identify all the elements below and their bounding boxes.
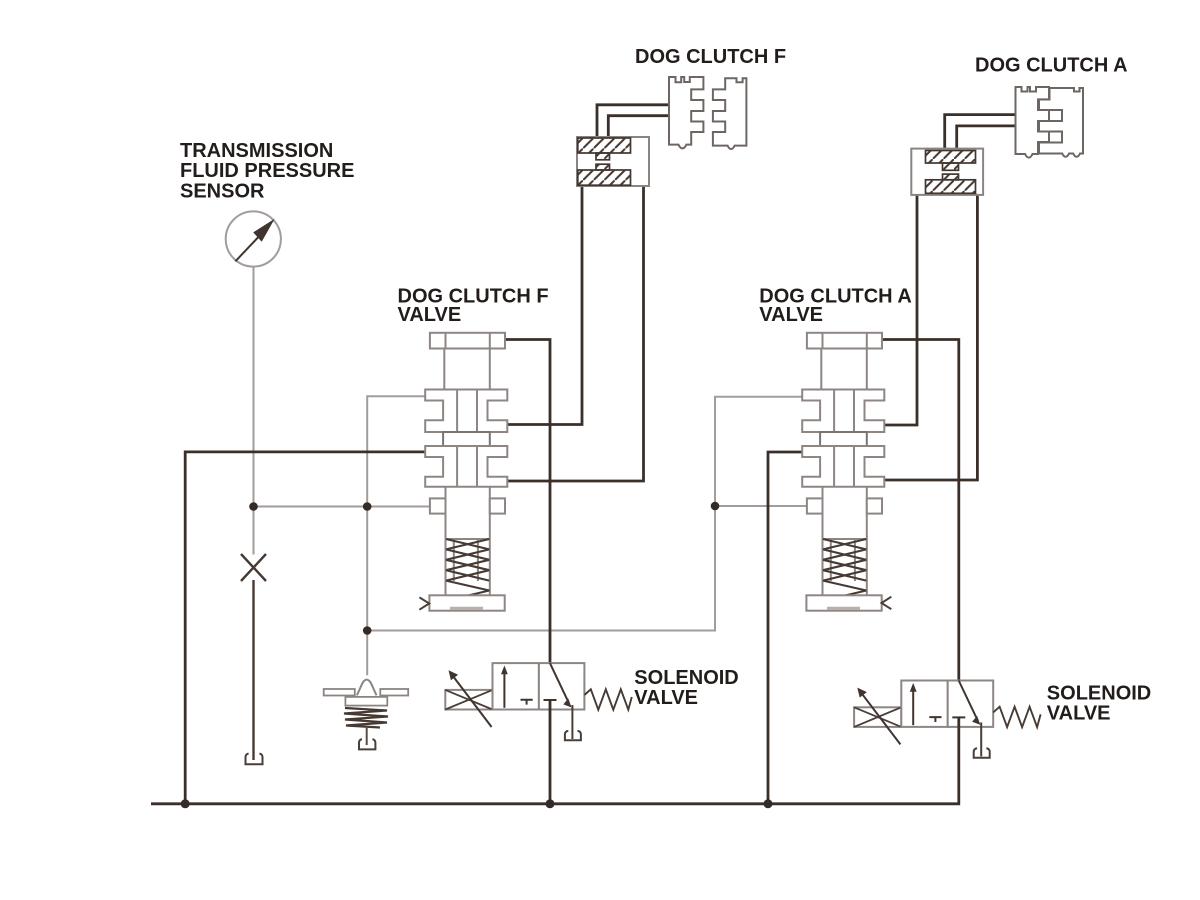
wire: pilot line from DC-F valve spool1 left port down to junction column: [367, 396, 425, 630]
node: junction dot bus left leg: [181, 799, 190, 808]
dog clutch A left half: [1016, 87, 1050, 158]
dog clutch A right half: [1039, 88, 1083, 157]
actuator cylinder F: [577, 137, 649, 186]
svg-text:FLUID PRESSURE: FLUID PRESSURE: [180, 160, 354, 182]
actuator cylinder A: [911, 149, 983, 195]
svg-text:SENSOR: SENSOR: [180, 180, 265, 202]
svg-text:TRANSMISSION: TRANSMISSION: [180, 140, 333, 162]
node: junction dot relief branch: [363, 626, 372, 635]
wire: actuator A rod link upper: [945, 115, 1016, 149]
drain chevron of DC-A valve: [882, 597, 892, 610]
actuator A piston web upper: [943, 163, 959, 170]
node: junction dot DC-A pilot branch: [711, 502, 720, 511]
wire: DC-A valve cap to right solenoid supply: [881, 340, 959, 681]
relief valve body box: [345, 697, 387, 706]
transmission fluid pressure sensor gauge: [226, 211, 281, 266]
valve U1: DOG CLUTCH F VALVE spool assembly: [425, 333, 507, 611]
svg-text:DOG CLUTCH F: DOG CLUTCH F: [635, 46, 786, 68]
actuator A piston web lower: [943, 174, 959, 180]
wire: DC-A valve spool2 right port up to actuator A right: [884, 195, 977, 480]
wire: left solenoid bottom port to bus: [549, 700, 552, 804]
actuator F piston top band: [578, 138, 631, 153]
wire: transmission sensor drop line: [253, 267, 255, 555]
wire: DC-A valve spool2 left port to bus drop: [768, 452, 803, 804]
solenoid valve SV1 (left): [445, 663, 632, 740]
wire: DC-F valve spool2 left port to left drop leg: [185, 452, 425, 804]
check cross X on sensor line: [241, 554, 266, 581]
actuator F piston web upper: [596, 153, 610, 160]
actuator F piston bottom band: [578, 170, 631, 185]
solenoid valve SV2 (right): [854, 681, 1041, 758]
node: junction dot bus right drop: [764, 799, 773, 808]
svg-text:SOLENOID: SOLENOID: [1047, 683, 1151, 705]
wire: sensor branch line to DC-F valve port tab: [254, 506, 430, 508]
wire: actuator A rod link lower: [957, 126, 1016, 149]
wire: bottom supply bus: [151, 716, 959, 804]
wire: DC-F valve spool1 right port up to actuator F left: [507, 186, 582, 425]
node: junction dot bus left solenoid: [546, 799, 555, 808]
dog clutch F right half: [713, 78, 747, 149]
wire: sensor drain line below check cross: [252, 580, 254, 760]
node: junction dot sensor branch: [249, 502, 258, 511]
svg-text:VALVE: VALVE: [759, 304, 823, 326]
relief valve seat bar right: [380, 689, 408, 696]
relief valve drain stem: [366, 728, 368, 745]
drain chevron of DC-F valve: [419, 597, 429, 609]
wire: relief valve feed stub: [366, 631, 368, 676]
node: junction dot pilot cross left: [363, 502, 372, 511]
relief regulator valve: poppet: [324, 680, 408, 706]
actuator F piston web lower: [596, 164, 610, 170]
svg-text:SOLENOID: SOLENOID: [634, 667, 738, 689]
wire: DC-F valve cap to left solenoid supply: [505, 340, 551, 664]
svg-text:DOG CLUTCH A: DOG CLUTCH A: [975, 55, 1128, 77]
svg-text:VALVE: VALVE: [1047, 703, 1111, 725]
wire: actuator F rod link lower: [608, 116, 669, 137]
actuator A piston top band: [926, 151, 976, 164]
wire: actuator F rod link upper: [597, 105, 669, 137]
svg-text:VALVE: VALVE: [634, 687, 698, 709]
actuator A piston bottom band: [926, 180, 976, 194]
wire: DC-F valve spool2 right port up to actuator F right: [507, 186, 643, 481]
valve U2: DOG CLUTCH A VALVE spool assembly: [802, 333, 884, 611]
dog clutch F left half: [669, 77, 703, 148]
wire: DC-A valve spool1 right port up to actuator A left: [884, 195, 917, 425]
svg-text:VALVE: VALVE: [398, 304, 462, 326]
wire: cross line from relief junction to DC-A pilot column: [367, 397, 802, 631]
wire: branch to DC-A valve port tab: [715, 505, 807, 507]
relief valve seat bar left: [324, 689, 355, 696]
relief valve coil spring: [344, 708, 388, 728]
relief valve tank cup: [359, 739, 375, 749]
tank cup under sensor line: [246, 754, 263, 765]
